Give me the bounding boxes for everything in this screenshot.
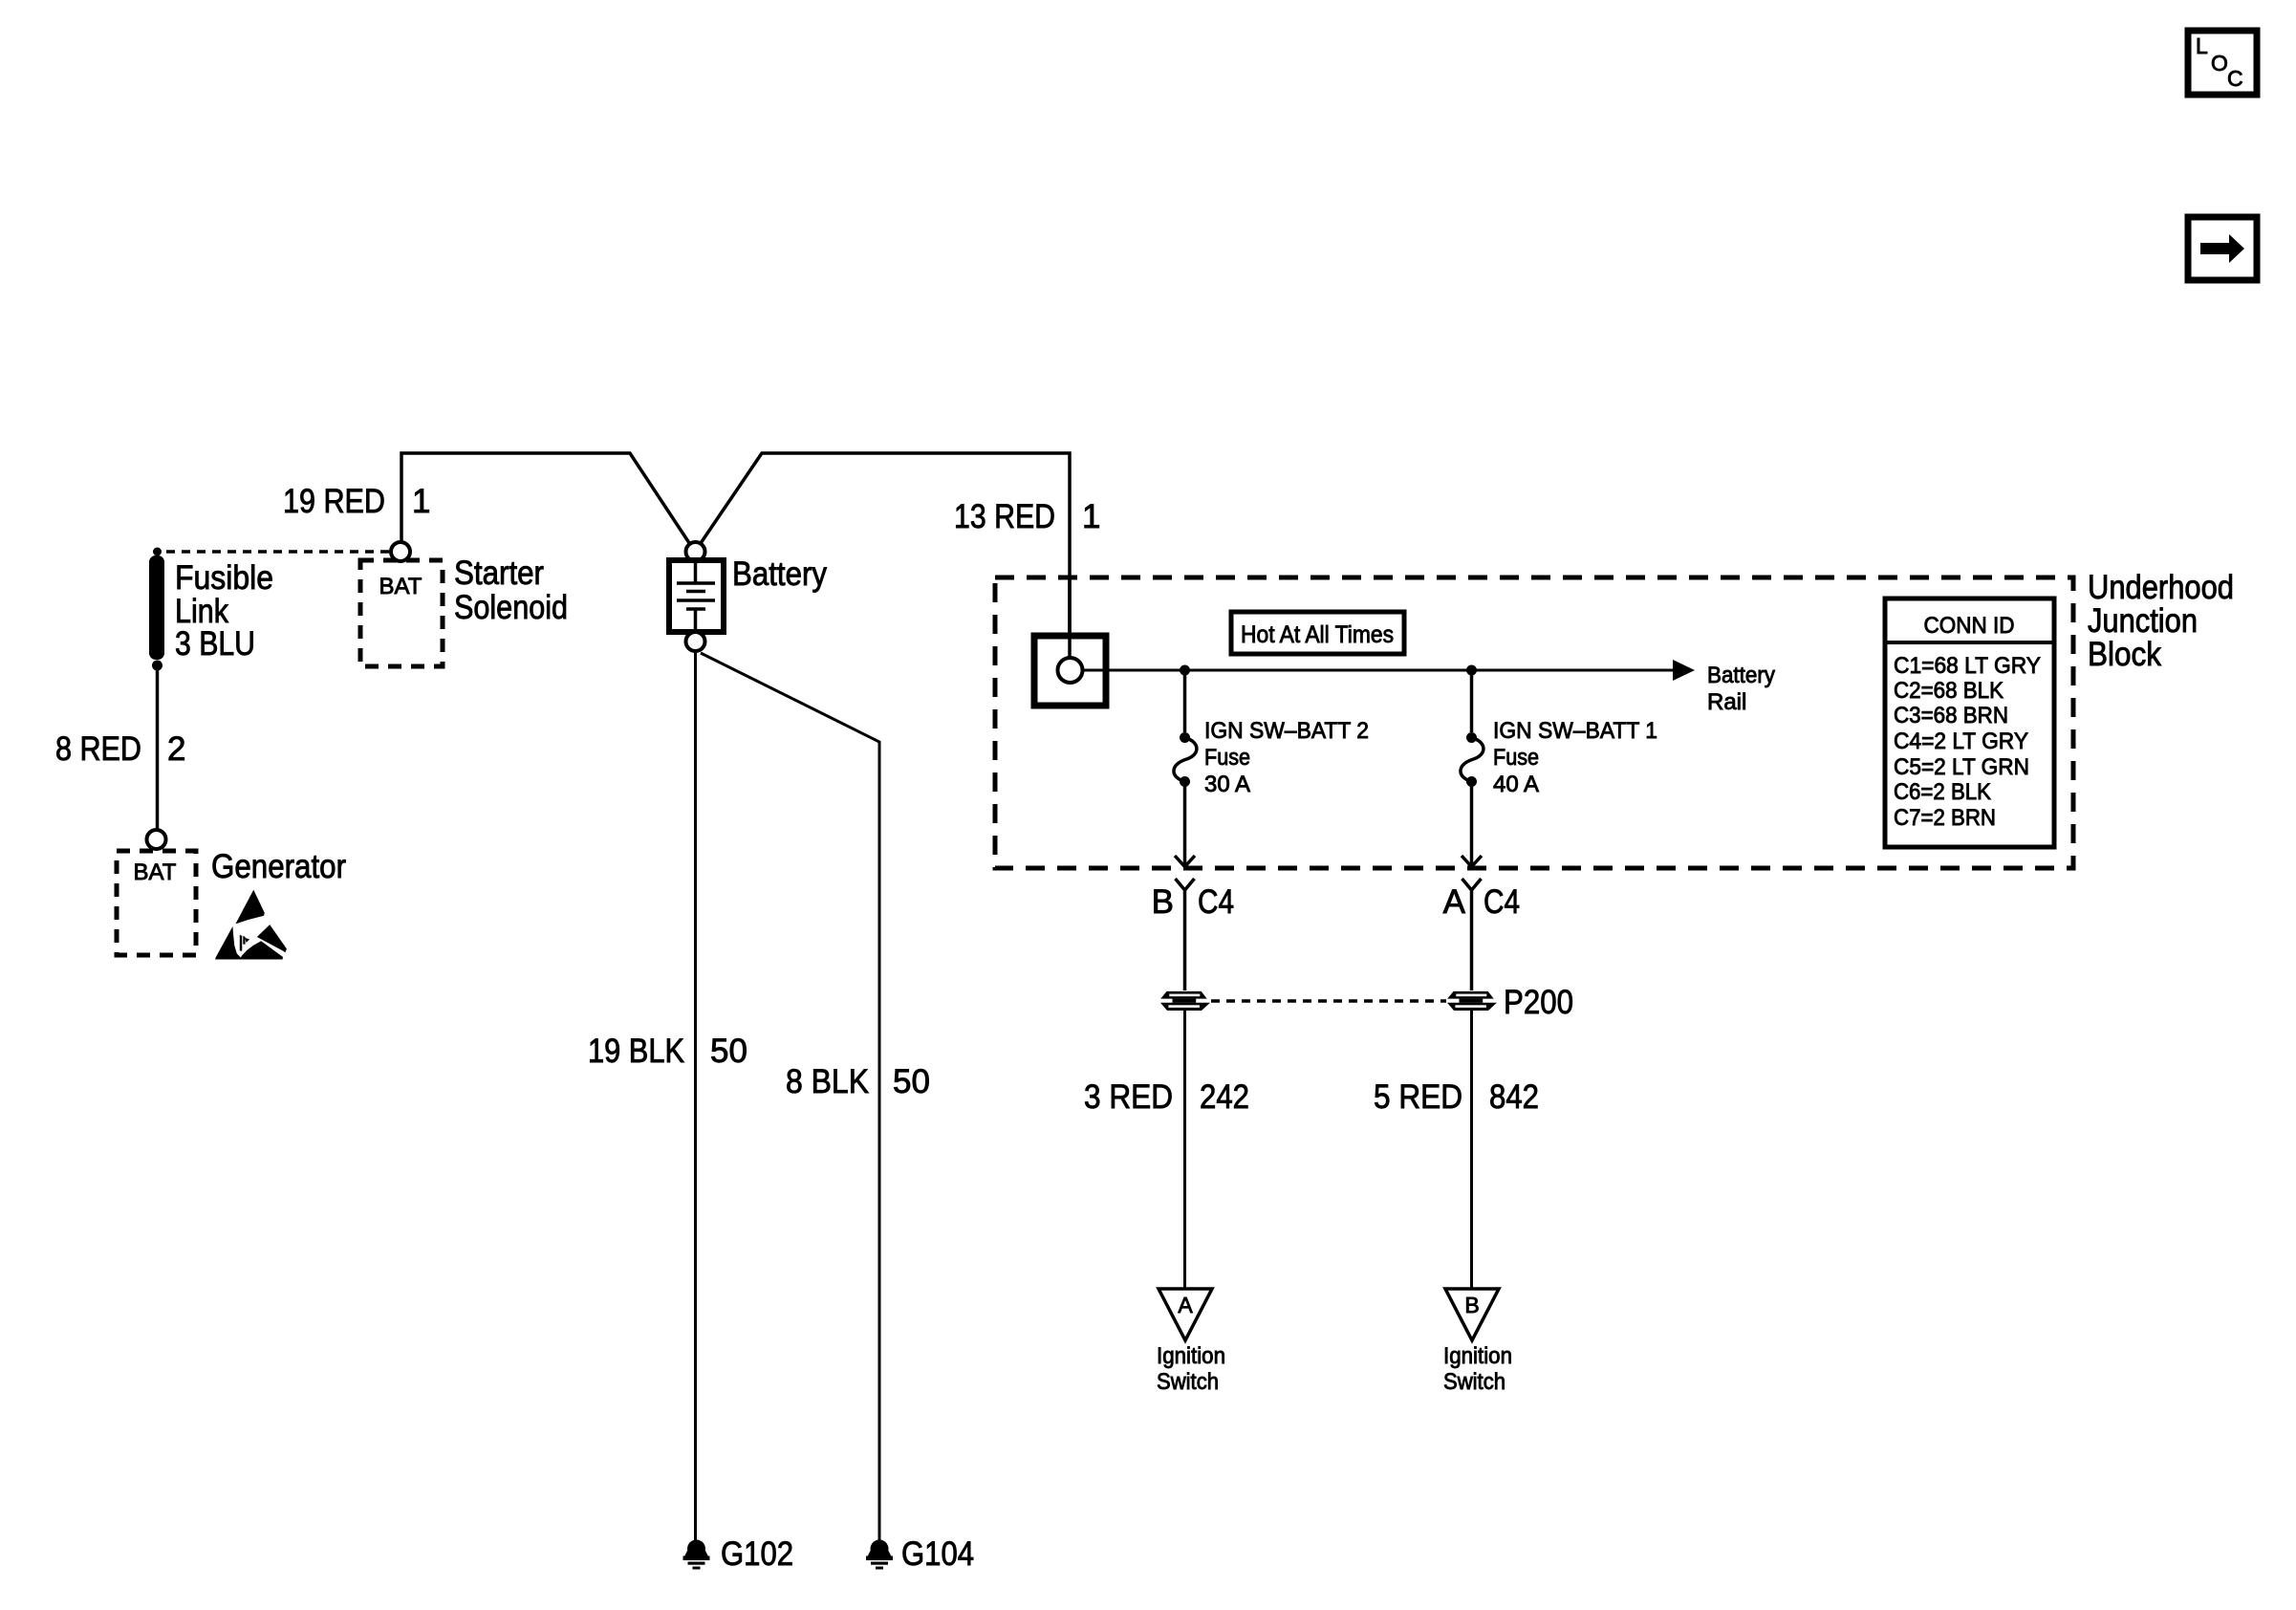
battery rail wire <box>1083 669 1674 672</box>
svg-text:G102: G102 <box>721 1535 793 1573</box>
generator dashed box <box>117 851 196 955</box>
junction node fuse 1 <box>1180 665 1190 676</box>
svg-text:P200: P200 <box>1504 984 1573 1021</box>
svg-text:B: B <box>1152 883 1174 921</box>
svg-text:C7=2 BRN: C7=2 BRN <box>1894 805 1996 831</box>
label Ignition Switch (left) <box>1157 1343 1225 1395</box>
dashed tie line between P200 halves <box>1211 999 1446 1003</box>
label Battery Rail <box>1707 663 1775 715</box>
svg-text:Ignition: Ignition <box>1443 1343 1512 1369</box>
svg-text:C6=2 BLK: C6=2 BLK <box>1894 779 1991 805</box>
svg-text:19 BLK: 19 BLK <box>588 1033 684 1070</box>
svg-text:19 RED: 19 RED <box>283 483 385 520</box>
junction block input square terminal <box>1034 636 1106 706</box>
ESD sensitive symbol <box>215 890 287 960</box>
svg-text:BAT: BAT <box>379 574 422 599</box>
junction node fuse 2 <box>1466 665 1477 676</box>
svg-text:1: 1 <box>412 483 430 520</box>
svg-text:IGN SW–BATT 2: IGN SW–BATT 2 <box>1204 718 1369 744</box>
svg-text:50: 50 <box>893 1063 930 1100</box>
svg-text:B: B <box>1464 1293 1479 1317</box>
wire 8 RED (fusible link to generator) <box>156 665 160 830</box>
battery box <box>669 560 724 632</box>
label 8 RED 2 <box>55 730 185 768</box>
svg-text:Fuse: Fuse <box>1204 745 1250 771</box>
svg-text:Ignition: Ignition <box>1157 1343 1225 1369</box>
svg-text:5 RED: 5 RED <box>1374 1078 1462 1116</box>
battery positive terminal circle <box>686 542 705 561</box>
wire 3 RED 242 <box>1183 1010 1186 1289</box>
svg-text:CONN ID: CONN ID <box>1924 613 2015 639</box>
wire into square terminal <box>1068 577 1072 658</box>
off-page connector triangle A <box>1159 1289 1212 1340</box>
label 8 BLK 50 <box>786 1063 930 1100</box>
svg-text:842: 842 <box>1489 1078 1539 1116</box>
svg-text:L: L <box>2196 33 2208 58</box>
label fuse 2 <box>1493 718 1657 797</box>
svg-text:3 RED: 3 RED <box>1084 1078 1173 1116</box>
next-page arrow box <box>2188 217 2257 280</box>
label A C4 <box>1443 883 1520 921</box>
svg-text:8 BLK: 8 BLK <box>786 1063 869 1100</box>
wire 19 RED (solenoid feed) <box>401 453 695 552</box>
battery rail arrowhead <box>1673 660 1695 681</box>
label Starter Solenoid <box>454 555 568 626</box>
underhood junction block dashed box <box>995 577 2073 868</box>
svg-text:Generator: Generator <box>211 848 346 885</box>
svg-text:O: O <box>2211 51 2228 76</box>
svg-text:Battery: Battery <box>732 555 827 593</box>
svg-text:3 BLU: 3 BLU <box>175 625 255 663</box>
svg-text:2: 2 <box>167 730 185 768</box>
svg-text:40 A: 40 A <box>1493 772 1539 797</box>
LOC box <box>2188 31 2257 95</box>
wire 5 RED 842 <box>1470 1010 1473 1289</box>
svg-text:Switch: Switch <box>1443 1369 1505 1395</box>
svg-text:C1=68 LT GRY: C1=68 LT GRY <box>1894 653 2041 679</box>
fusible link element <box>149 555 164 660</box>
label fuse 1 <box>1204 718 1369 797</box>
node below fusible link <box>152 661 162 671</box>
svg-text:Junction: Junction <box>2088 602 2198 640</box>
label B C4 <box>1152 883 1234 921</box>
svg-text:C2=68 BLK: C2=68 BLK <box>1894 678 2004 704</box>
svg-text:C4=2 LT GRY: C4=2 LT GRY <box>1894 729 2028 754</box>
svg-text:C4: C4 <box>1484 883 1520 921</box>
starter solenoid BAT terminal circle <box>391 542 410 561</box>
label 19 BLK 50 <box>588 1033 747 1070</box>
svg-text:Hot At All Times: Hot At All Times <box>1241 621 1394 648</box>
square terminal circle <box>1058 658 1083 683</box>
svg-text:A: A <box>1443 883 1466 921</box>
generator BAT terminal circle <box>147 830 166 849</box>
Hot At All Times tag <box>1231 612 1404 654</box>
inline connector P200 right half <box>1447 991 1497 1011</box>
svg-text:A: A <box>1178 1293 1193 1317</box>
svg-text:8 RED: 8 RED <box>55 730 141 768</box>
svg-text:Battery: Battery <box>1707 663 1775 688</box>
svg-text:C5=2 LT GRN: C5=2 LT GRN <box>1894 754 2029 780</box>
svg-text:Solenoid: Solenoid <box>454 589 568 626</box>
svg-text:Rail: Rail <box>1707 689 1746 715</box>
svg-text:Block: Block <box>2088 636 2161 673</box>
svg-text:C: C <box>2227 66 2243 91</box>
label 19 RED 1 <box>283 483 430 520</box>
label 5 RED 842 <box>1374 1078 1539 1116</box>
node at fusible link top <box>153 548 162 556</box>
dashed wire: fusible link to starter solenoid <box>166 550 391 554</box>
svg-text:C3=68 BRN: C3=68 BRN <box>1894 703 2008 729</box>
svg-text:50: 50 <box>710 1033 747 1070</box>
svg-text:Starter: Starter <box>454 555 544 592</box>
wire 13 RED (battery to junction block) <box>695 453 1070 658</box>
svg-text:Fusible: Fusible <box>175 559 273 597</box>
battery cell plates <box>677 563 715 629</box>
starter solenoid dashed box <box>360 560 443 666</box>
svg-text:242: 242 <box>1200 1078 1249 1116</box>
svg-text:13 RED: 13 RED <box>954 498 1055 535</box>
wire 8 BLK (battery to G104) <box>701 653 879 1540</box>
svg-text:Underhood: Underhood <box>2088 569 2234 606</box>
svg-text:30 A: 30 A <box>1204 772 1250 797</box>
svg-text:1: 1 <box>1082 498 1100 535</box>
svg-text:C4: C4 <box>1198 883 1234 921</box>
label Ignition Switch (right) <box>1443 1343 1512 1395</box>
CONN ID table <box>1885 598 2054 847</box>
svg-text:BAT: BAT <box>134 859 177 885</box>
connector A C4 receptacle <box>1462 879 1482 990</box>
label 3 RED 242 <box>1084 1078 1249 1116</box>
label 13 RED 1 <box>954 498 1100 535</box>
label Underhood Junction Block <box>2088 569 2234 673</box>
svg-text:IGN SW–BATT 1: IGN SW–BATT 1 <box>1493 718 1657 744</box>
ground G102 <box>683 1535 794 1573</box>
connector B C4 receptacle <box>1176 879 1195 990</box>
inline connector P200 left half <box>1160 991 1210 1011</box>
battery negative terminal circle <box>686 632 705 651</box>
off-page connector triangle B <box>1445 1289 1499 1340</box>
label Fusible Link 3 BLU <box>175 559 273 663</box>
ground G104 <box>866 1535 974 1573</box>
fuse IGN SW-BATT 2 30A <box>1174 670 1197 867</box>
svg-text:Fuse: Fuse <box>1493 745 1539 771</box>
svg-text:Switch: Switch <box>1157 1369 1219 1395</box>
svg-text:G104: G104 <box>901 1535 974 1573</box>
wire 19 BLK (battery to G102) <box>694 651 697 1540</box>
fuse IGN SW-BATT 1 40A <box>1461 670 1484 867</box>
